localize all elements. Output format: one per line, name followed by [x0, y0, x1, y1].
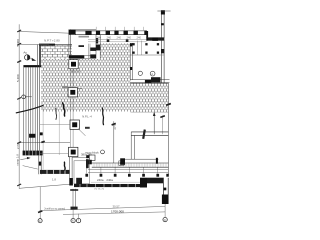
svg-text:240a: 240a [106, 178, 113, 182]
svg-text:ramp 1:8: ramp 1:8 [15, 154, 19, 166]
svg-text:240: 240 [137, 36, 142, 40]
svg-text:Justifica su pared: Justifica su pared [44, 207, 65, 211]
svg-text:2.700: 2.700 [16, 142, 20, 149]
svg-text:6: 6 [72, 219, 74, 223]
svg-text:Au: Au [23, 51, 27, 55]
svg-text:240: 240 [127, 36, 132, 40]
svg-text:27.5: 27.5 [113, 124, 117, 130]
svg-text:1.8: 1.8 [52, 177, 56, 181]
svg-text:30.57: 30.57 [113, 204, 120, 208]
svg-text:240a: 240a [97, 178, 104, 182]
svg-text:5.400: 5.400 [16, 39, 20, 47]
svg-text:240: 240 [97, 36, 102, 40]
svg-text:240: 240 [117, 36, 122, 40]
svg-text:240: 240 [107, 36, 112, 40]
svg-text:380x380: 380x380 [70, 69, 81, 73]
svg-text:7: 7 [78, 219, 80, 223]
svg-text:muro block: muro block [85, 151, 99, 155]
svg-text:4: 4 [39, 219, 41, 223]
svg-text:N.P.T +2.80: N.P.T +2.80 [44, 39, 60, 43]
svg-text:A: A [151, 72, 153, 76]
svg-text:5.400: 5.400 [16, 74, 20, 82]
svg-text:N.P.L.-4: N.P.L.-4 [82, 115, 92, 119]
svg-text:75 75 75: 75 75 75 [94, 187, 105, 191]
svg-text:1700.000: 1700.000 [111, 210, 124, 214]
